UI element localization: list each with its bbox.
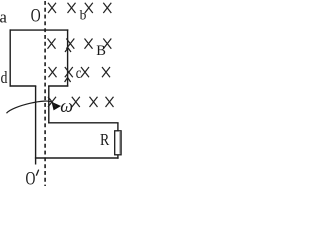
right lead wire [48,86,50,124]
svg-text:b: b [80,7,87,22]
wire below R [117,155,119,159]
coil bottom edge left part d [10,85,37,87]
field mark X row3 col1 [49,67,57,77]
current arrowhead on right edge (lower) [65,78,71,83]
field mark X row1 col4 [103,3,111,13]
field mark X row1 col1 [48,3,56,13]
prime of O' [36,170,38,176]
field mark X row3 col3 [81,67,89,77]
coil top edge a-b [10,29,69,31]
svg-text:c: c [76,65,82,83]
field mark X row1 col3 [85,3,93,13]
svg-text:d: d [1,69,8,88]
resistor R box inner shade [119,132,121,154]
current arrowhead on right edge (upper) [65,48,71,52]
field mark X row3 col4 [102,67,110,77]
svg-text:O: O [31,4,41,26]
svg-text:B: B [96,43,106,59]
coil right edge b-c [67,29,69,86]
bottom rail wire [35,157,119,159]
arrowhead of omega rotation arrow [52,102,62,111]
field mark X row2 col4 [103,39,111,49]
svg-text:a: a [0,8,8,27]
svg-text:R: R [100,131,110,150]
svg-text:ω: ω [60,96,73,118]
right drop wire above R [117,123,119,131]
field mark X row2 col1 [48,39,56,49]
rotation axis OO' dashed [44,1,46,186]
field mark X row4 col1 [48,97,56,107]
field mark X row2 col2 [66,39,74,49]
rotation arc of omega arrow [7,101,53,113]
field mark X row2 col3 [85,39,93,49]
top rail wire to R [48,122,119,124]
coil left edge a-d [9,29,11,86]
field mark X row1 col2 [68,3,76,13]
svg-text:O: O [26,167,36,189]
resistor R box [115,131,121,155]
field mark X row3 col2 [65,67,73,77]
coil bottom edge right part c [48,85,68,87]
field mark X row4 col4 [106,97,114,107]
field mark X row4 col3 [90,97,98,107]
left lead wire [35,86,37,165]
field mark X row4 col2 [72,97,80,107]
